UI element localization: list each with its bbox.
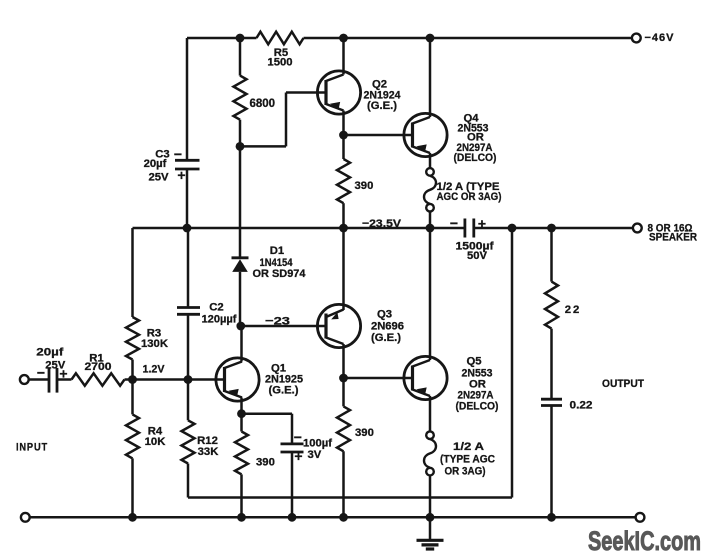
svg-text:−23.5V: −23.5V: [362, 218, 401, 230]
svg-text:2700: 2700: [85, 361, 112, 373]
svg-text:OR 3AG): OR 3AG): [445, 466, 486, 478]
svg-text:130K: 130K: [141, 338, 169, 350]
svg-text:22: 22: [565, 304, 582, 316]
svg-text:Q5: Q5: [466, 356, 481, 368]
svg-text:2N696: 2N696: [371, 321, 404, 333]
svg-text:390: 390: [256, 457, 275, 469]
svg-text:INPUT: INPUT: [16, 442, 48, 454]
svg-text:3V: 3V: [308, 449, 322, 461]
svg-text:6800: 6800: [250, 98, 276, 110]
svg-text:33K: 33K: [198, 446, 220, 458]
svg-text:1/2 A: 1/2 A: [453, 441, 484, 453]
svg-text:−: −: [37, 365, 45, 381]
svg-text:+: +: [294, 448, 302, 464]
svg-text:50V: 50V: [467, 250, 488, 262]
svg-text:25V: 25V: [148, 172, 169, 184]
svg-text:AGC OR 3AG): AGC OR 3AG): [437, 191, 502, 203]
svg-text:390: 390: [355, 180, 374, 192]
svg-text:(G.E.): (G.E.): [371, 332, 401, 344]
svg-text:100µf: 100µf: [303, 438, 332, 450]
svg-text:+: +: [59, 366, 67, 382]
svg-text:(TYPE AGC: (TYPE AGC: [440, 454, 495, 466]
svg-text:−: −: [450, 215, 458, 231]
svg-text:SPEAKER: SPEAKER: [649, 232, 697, 244]
svg-text:−23: −23: [265, 316, 290, 328]
svg-text:(DELCO): (DELCO): [454, 152, 497, 164]
svg-text:SeekIC.com: SeekIC.com: [588, 526, 701, 556]
svg-text:−46V: −46V: [645, 32, 675, 44]
svg-text:D1: D1: [270, 245, 284, 257]
svg-text:(G.E.): (G.E.): [268, 385, 298, 397]
svg-text:0.22: 0.22: [570, 400, 593, 412]
svg-text:C2: C2: [209, 302, 223, 314]
svg-text:390: 390: [355, 427, 374, 439]
svg-text:1.2V: 1.2V: [143, 364, 165, 376]
svg-text:(DELCO): (DELCO): [456, 401, 499, 413]
svg-text:(G.E.): (G.E.): [367, 100, 397, 112]
svg-text:20µf: 20µf: [144, 158, 167, 170]
svg-text:OUTPUT: OUTPUT: [602, 378, 644, 390]
svg-text:OR SD974: OR SD974: [253, 268, 307, 280]
svg-text:−: −: [174, 146, 182, 162]
svg-text:−: −: [294, 429, 302, 445]
svg-text:1500: 1500: [267, 57, 292, 69]
svg-text:120µµf: 120µµf: [202, 314, 237, 326]
svg-text:+: +: [177, 167, 185, 183]
svg-text:Q3: Q3: [377, 309, 392, 321]
svg-text:10K: 10K: [145, 436, 167, 448]
svg-text:20µf: 20µf: [36, 347, 63, 359]
svg-text:+: +: [478, 216, 486, 232]
